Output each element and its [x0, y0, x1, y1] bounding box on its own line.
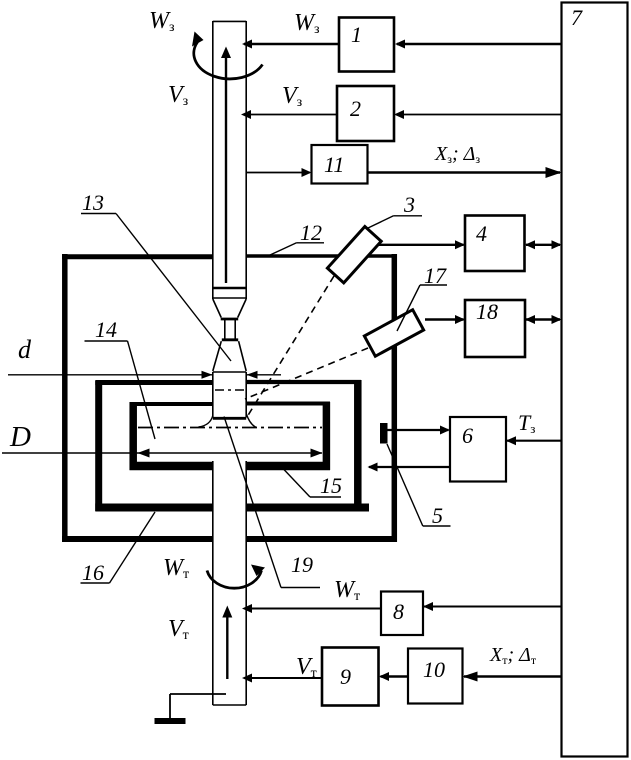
svg-text:17: 17: [424, 263, 447, 288]
block 4: [465, 216, 525, 272]
wire: block7 to block8: [423, 602, 562, 611]
rotation arrow Wt (arc): [207, 565, 265, 589]
wire: block10 to block9: [379, 672, 408, 681]
block 8: [381, 592, 423, 636]
pyrometer 17 (tilted): [364, 310, 423, 356]
wire: block11 to block7 (Xz): [368, 167, 562, 178]
svg-text:D: D: [9, 421, 31, 453]
wire: block9 to lower rod (Vt drive): [242, 674, 322, 683]
rotation arrow Wz (arc): [192, 32, 263, 79]
leader for 16: [81, 512, 156, 583]
wire: block2 to rod (Vz drive): [241, 110, 337, 119]
block 18: [465, 300, 525, 357]
wire: block7 to block10 (Xt): [463, 672, 562, 682]
wire: block7 to block1: [395, 40, 562, 49]
leader for 15: [283, 469, 341, 498]
wire: block8 to lower rod (Wt drive): [242, 604, 381, 613]
arrow Vt up inside lower rod: [222, 606, 232, 680]
crucible 15 walls: [130, 402, 331, 470]
svg-text:11: 11: [324, 152, 344, 177]
svg-text:9: 9: [340, 664, 351, 689]
block 10: [408, 649, 463, 704]
block 6: [450, 417, 506, 482]
block 7 (controller): [562, 3, 628, 757]
svg-text:14: 14: [95, 317, 117, 342]
svg-text:2: 2: [350, 96, 361, 121]
wire: block7 to block6 (Tz): [506, 436, 562, 445]
wire: thermocouple to block6: [388, 426, 451, 435]
sight ray from 3 (dashed): [247, 276, 334, 417]
wire: pyrometer17 to block18: [425, 315, 465, 324]
arrow Vz up inside rod: [221, 47, 231, 284]
lower shaft 19: [213, 461, 246, 705]
svg-text:10: 10: [423, 657, 445, 682]
svg-text:8: 8: [393, 599, 404, 624]
svg-text:d: d: [18, 335, 32, 364]
svg-text:Xт; Δт: Xт; Δт: [489, 644, 537, 667]
wire: block6 to heater: [368, 463, 451, 472]
wire: rod to block11: [247, 168, 312, 177]
wire: block1 to rod (Wz drive): [242, 40, 339, 49]
chamber 12 walls: [62, 254, 397, 542]
leader for 19: [224, 417, 320, 588]
block 1: [339, 18, 394, 72]
dimension d (crystal diameter): [8, 371, 281, 379]
crystal centerline dash-dot: [215, 389, 244, 391]
wire: block18 to block7 (double arrow): [525, 315, 562, 324]
svg-text:3: 3: [403, 192, 415, 217]
block 9: [322, 648, 379, 706]
svg-text:5: 5: [432, 503, 443, 528]
svg-text:15: 15: [320, 473, 342, 498]
svg-text:19: 19: [291, 552, 313, 577]
heat shield 16 walls: [95, 380, 369, 511]
crystal body: [213, 372, 246, 418]
crystal cone 13: [213, 341, 246, 372]
wire: pyrometer3 to block4: [377, 240, 465, 249]
block 2: [337, 86, 394, 141]
leader for 17: [397, 285, 447, 331]
svg-text:1: 1: [351, 22, 362, 47]
ground symbol: [155, 718, 186, 724]
svg-text:4: 4: [476, 221, 487, 246]
leader for 14: [85, 341, 156, 439]
melt centerline (dash-dot): [138, 427, 322, 429]
wire: block7 to block2: [394, 110, 562, 119]
sight ray from 17 (dashed): [245, 348, 368, 399]
leader for 5: [387, 444, 451, 526]
svg-text:7: 7: [571, 5, 583, 30]
collet on rod: [213, 288, 247, 319]
ground wire: [170, 694, 226, 718]
wire: block4 to block7 (double arrow): [525, 240, 562, 249]
leader for 3: [368, 216, 422, 228]
melt meniscus: [199, 414, 257, 428]
dimension D (crucible inner diameter): [2, 449, 323, 458]
svg-text:6: 6: [462, 423, 473, 448]
svg-text:12: 12: [300, 220, 322, 245]
svg-text:16: 16: [82, 560, 104, 585]
upper shaft (seed rod): [213, 21, 246, 299]
thermocouple 5 (black tab): [380, 423, 388, 444]
block 11: [312, 145, 368, 184]
svg-text:Xз; Δз: Xз; Δз: [434, 143, 480, 166]
leader for 13: [81, 214, 231, 362]
seed neck: [222, 320, 238, 340]
svg-text:13: 13: [82, 190, 104, 215]
pyrometer 3 (tilted): [327, 227, 381, 283]
leader for 12: [270, 243, 324, 255]
svg-text:18: 18: [476, 299, 498, 324]
